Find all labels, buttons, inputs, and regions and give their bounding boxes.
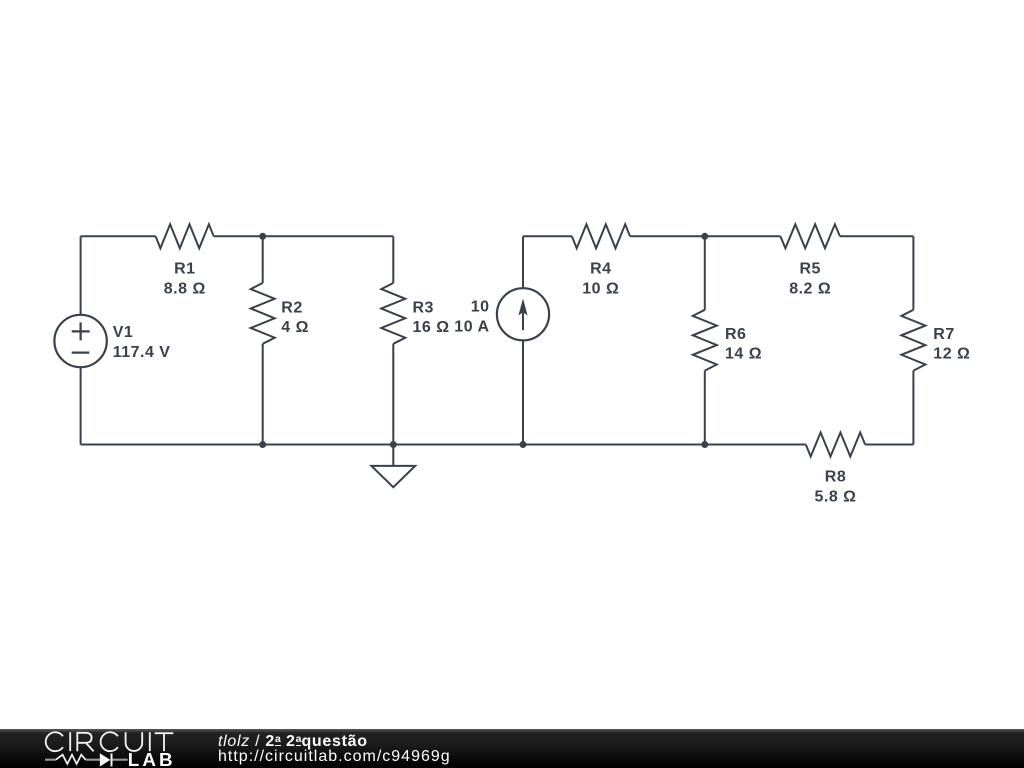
- wire R7 bottom: [912, 371, 914, 445]
- current source I circle: [497, 288, 549, 340]
- svg-text:10 A: 10 A: [454, 319, 489, 336]
- svg-text:12 Ω: 12 Ω: [933, 345, 970, 362]
- logo letter I: [149, 732, 151, 751]
- svg-text:R4: R4: [590, 261, 611, 278]
- logo letter U: [126, 732, 143, 751]
- wire bottom rail right: [865, 444, 913, 446]
- logo letter T: [155, 733, 174, 751]
- wire R6 bottom: [704, 371, 706, 445]
- voltage source V1: [54, 315, 106, 367]
- wire R7 branch top: [912, 236, 914, 309]
- wire R1 to R3 corner: [214, 235, 394, 237]
- wire bottom rail: [81, 444, 806, 446]
- node dot R1/R2 top: [259, 233, 266, 240]
- footer title line: [218, 731, 368, 750]
- wire left branch down to V1: [80, 236, 82, 314]
- svg-text:5.8 Ω: 5.8 Ω: [814, 488, 856, 505]
- node dot R6/R8 bottom: [701, 441, 708, 448]
- wire R3 branch top: [392, 236, 394, 283]
- logo letter C: [101, 732, 118, 751]
- svg-text:117.4 V: 117.4 V: [113, 344, 171, 361]
- svg-text:10 Ω: 10 Ω: [582, 281, 619, 298]
- wire V1 bottom: [80, 367, 82, 444]
- ground: [371, 445, 415, 488]
- svg-text:R7: R7: [933, 326, 954, 343]
- svg-text:R5: R5: [799, 261, 820, 278]
- svg-text:8.2 Ω: 8.2 Ω: [789, 281, 831, 298]
- svg-text:R8: R8: [825, 468, 846, 485]
- resistor R2: [251, 283, 275, 344]
- wire R2 branch top: [262, 236, 264, 283]
- wire R2 bottom: [262, 344, 264, 445]
- logo letter I: [69, 732, 71, 751]
- resistor R8: [806, 433, 865, 457]
- svg-text:14 Ω: 14 Ω: [725, 345, 762, 362]
- current source arrow head: [518, 299, 527, 316]
- resistor R4: [572, 224, 630, 248]
- wire top-left rail: [81, 235, 156, 237]
- resistor R3: [381, 283, 405, 344]
- V1 minus sign: [72, 352, 90, 354]
- resistor R1: [156, 224, 214, 248]
- node dot R2 bottom: [259, 441, 266, 448]
- current source bottom wire: [522, 340, 524, 444]
- logo letter C: [46, 732, 63, 751]
- svg-text:LAB: LAB: [128, 749, 176, 768]
- resistor R7: [901, 310, 925, 371]
- current source arrow shaft: [522, 305, 524, 330]
- svg-text:16 Ω: 16 Ω: [413, 319, 450, 336]
- node dot ground: [390, 441, 397, 448]
- svg-text:R2: R2: [281, 300, 302, 317]
- wire R3 bottom: [392, 344, 394, 445]
- svg-text:R3: R3: [413, 300, 434, 317]
- node dot R4/R6 top: [701, 233, 708, 240]
- wire top-right rail to R4: [523, 235, 572, 237]
- logo diode triangle: [100, 753, 111, 766]
- current source I top wire: [522, 236, 524, 288]
- resistor R6: [693, 310, 717, 371]
- wire R5 to right corner: [840, 235, 914, 237]
- svg-text:R1: R1: [174, 261, 195, 278]
- logo letter R: [77, 733, 93, 751]
- V1 plus sign: [72, 322, 90, 340]
- resistor R5: [780, 224, 840, 248]
- logo resistor zigzag: [56, 755, 86, 764]
- logo wire segments: [45, 759, 128, 761]
- footer url line: [218, 749, 451, 765]
- wire R6 branch top: [704, 236, 706, 309]
- footer bar: [0, 729, 1024, 768]
- svg-text:R6: R6: [725, 326, 746, 343]
- svg-text:10: 10: [471, 299, 490, 316]
- svg-text:4 Ω: 4 Ω: [281, 319, 309, 336]
- svg-text:8.8 Ω: 8.8 Ω: [164, 281, 206, 298]
- logo diode bar: [111, 753, 113, 766]
- svg-text:V1: V1: [113, 324, 134, 341]
- wire R4 to R5: [630, 235, 780, 237]
- node dot current source bottom: [520, 441, 527, 448]
